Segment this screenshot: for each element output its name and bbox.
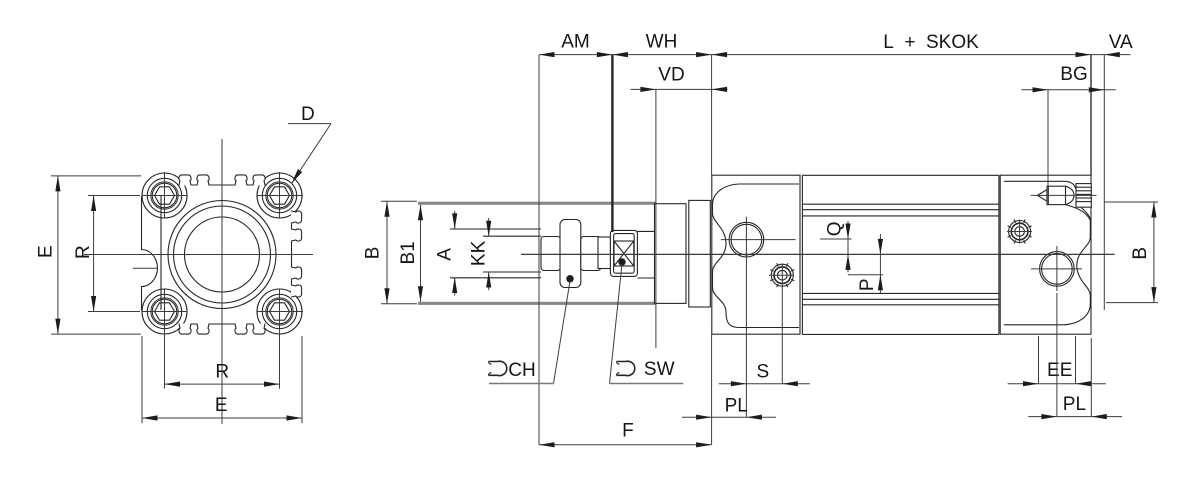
bolt hole B1 top-left inner circle bbox=[152, 183, 177, 208]
rod hex nut (CH) bbox=[560, 220, 581, 288]
knurl line 4 bbox=[1076, 197, 1091, 199]
bolt hex socket B4 bottom-right bbox=[270, 303, 290, 320]
bolt hole B1 top-left outer circle bbox=[147, 178, 181, 212]
rear tie-rod horizontal centerline bbox=[1007, 231, 1032, 233]
front cover inner bottom line bbox=[739, 327, 799, 329]
bolt hole B1 top-left chamfer circle bbox=[151, 182, 178, 209]
svg-text:VA: VA bbox=[1109, 32, 1133, 53]
svg-text:R: R bbox=[73, 245, 94, 259]
dimension E (left vertical) bbox=[51, 175, 141, 177]
cushion screw knurled knob bbox=[1076, 184, 1091, 208]
extension line rod end (AM/F) bbox=[538, 55, 540, 445]
dimension EE bbox=[1038, 336, 1040, 384]
svg-text:Q: Q bbox=[824, 222, 845, 237]
bolt hex socket B2 top-right bbox=[270, 187, 290, 204]
cap corner lug boss top-left bbox=[142, 173, 187, 218]
bolt hole B2 top-right inner circle bbox=[267, 183, 292, 208]
bolt hex socket B1 top-left bbox=[155, 187, 175, 204]
tube inner top line bbox=[802, 215, 999, 217]
dimension VD bbox=[631, 88, 728, 90]
front cover body bbox=[712, 175, 800, 334]
bolt row centerline top-right bbox=[257, 195, 303, 197]
dimension chain AM / WH / L + SKOK / VA bbox=[539, 54, 1131, 56]
front port horizontal centerline bbox=[721, 239, 796, 241]
cap bore middle circle bbox=[174, 206, 271, 303]
svg-text:CH: CH bbox=[508, 360, 535, 381]
knurl line 5 bbox=[1076, 201, 1091, 203]
svg-text:D: D bbox=[301, 104, 315, 125]
rear port outer circle bbox=[1040, 252, 1075, 287]
cap serration teeth bottom edge bbox=[179, 324, 191, 335]
front tie-rod horizontal centerline bbox=[769, 274, 794, 276]
cushion screw cone tip bbox=[1037, 190, 1047, 202]
rod guide collar bbox=[655, 204, 687, 304]
front tie-rod nut circle bbox=[771, 264, 793, 286]
cap bottom face line bbox=[184, 323, 260, 325]
cap horizontal centerline bbox=[84, 254, 313, 256]
cap serration teeth right edge bbox=[291, 211, 302, 223]
svg-text:E: E bbox=[36, 245, 57, 258]
dimension BG bbox=[1021, 89, 1115, 91]
front cover casting contour bbox=[713, 184, 740, 328]
rear tie-rod vertical centerline bbox=[1019, 220, 1021, 244]
rear cover body bbox=[1000, 175, 1091, 334]
main horizontal centerline bbox=[521, 253, 1115, 255]
bolt hole B2 top-right outer circle bbox=[262, 178, 296, 212]
dimension PL (rear) bbox=[1056, 293, 1058, 417]
knurl line 2 bbox=[1076, 190, 1091, 192]
svg-text:L + SKOK: L + SKOK bbox=[883, 32, 979, 53]
tube bottom edge bbox=[802, 333, 999, 335]
rear port inner circle bbox=[1042, 254, 1073, 285]
svg-text:B1: B1 bbox=[398, 241, 419, 264]
bolt row centerline bottom-left bbox=[142, 311, 187, 313]
bolt column centerline bottom-left bbox=[164, 289, 166, 334]
gray band bottom (profile tube bottom edge) bbox=[418, 302, 656, 305]
bolt column centerline bottom-right bbox=[279, 289, 281, 334]
extension line BG left bbox=[1047, 90, 1049, 186]
wrench flats diagonal 2 bbox=[614, 241, 634, 266]
rod face heavy extension line (AM/WH) bbox=[611, 55, 613, 232]
extension line VA/BG/B right bbox=[1103, 55, 1105, 310]
dimension P bbox=[848, 274, 883, 276]
leader dot CH bbox=[567, 276, 573, 282]
cap bore inner circle bbox=[185, 217, 260, 292]
wrench flats square bbox=[614, 241, 634, 266]
rear port vertical centerline bbox=[1056, 246, 1058, 291]
extension line rear cover face (L+SKOK/VA) bbox=[1090, 55, 1092, 176]
cap top face line bbox=[184, 184, 260, 186]
bolt hex socket B3 bottom-left bbox=[155, 303, 175, 320]
dimension R (left vertical) bbox=[88, 195, 140, 197]
svg-text:VD: VD bbox=[658, 65, 684, 86]
front mounting plate bbox=[689, 200, 711, 307]
svg-text:R: R bbox=[215, 361, 229, 382]
cap corner lug boss top-right bbox=[257, 173, 302, 218]
leader D to bolt hole bbox=[288, 123, 331, 125]
cap serration teeth top edge bbox=[179, 175, 191, 186]
bolt hole B4 bottom-right chamfer circle bbox=[266, 298, 293, 325]
bolt hole B3 bottom-left chamfer circle bbox=[151, 298, 178, 325]
front tie-rod vertical centerline bbox=[781, 264, 783, 288]
cushion screw centerline bbox=[1031, 194, 1097, 196]
tube left end bbox=[801, 175, 803, 334]
rod outer diameter line top bbox=[450, 228, 541, 230]
dimension KK bbox=[488, 218, 490, 236]
svg-text:WH: WH bbox=[646, 32, 678, 53]
svg-text:F: F bbox=[622, 421, 634, 442]
dimension A bbox=[454, 211, 456, 229]
tie rod top line 1 bbox=[802, 203, 999, 205]
cushion screw facet line bbox=[1047, 186, 1049, 204]
svg-text:P: P bbox=[857, 278, 878, 291]
wrench flats diagonal 1 bbox=[614, 241, 634, 266]
bolt column centerline top-right bbox=[279, 172, 281, 218]
extension line collar face (VD) bbox=[655, 89, 657, 348]
knurl line 3 bbox=[1076, 193, 1091, 195]
svg-text:PL: PL bbox=[725, 395, 748, 416]
rod shoulder right of nut bbox=[581, 237, 601, 271]
dimension B1 bbox=[420, 205, 422, 302]
bolt hole B2 top-right chamfer circle bbox=[266, 182, 293, 209]
front port inner circle bbox=[731, 224, 762, 255]
bolt hole B3 bottom-left outer circle bbox=[147, 294, 181, 328]
cap bore outer circle bbox=[168, 201, 276, 309]
svg-text:B: B bbox=[363, 247, 384, 260]
front cover inner top line bbox=[739, 183, 799, 185]
wrench flats inner box bbox=[614, 234, 635, 274]
tie rod top line 2 bbox=[802, 209, 999, 211]
dimension S bbox=[781, 288, 783, 384]
knurl line 1 bbox=[1076, 186, 1091, 188]
cushion screw hex body bbox=[1047, 186, 1066, 204]
svg-text:KK: KK bbox=[469, 240, 490, 266]
bolt row centerline top-left bbox=[142, 195, 187, 197]
rear tie-rod nut circle bbox=[1009, 221, 1031, 243]
svg-text:B: B bbox=[1130, 247, 1151, 260]
front tie-rod serrations bbox=[791, 279, 794, 281]
front port outer circle bbox=[729, 222, 764, 257]
gray band top (profile tube top edge) bbox=[418, 202, 656, 205]
cap left inner face line bbox=[160, 196, 162, 310]
svg-text:BG: BG bbox=[1060, 64, 1087, 85]
rod segment top line bbox=[637, 230, 654, 232]
rear cover inner lines and casting contour (rotated copy of front) bbox=[1004, 181, 1091, 325]
rod segment bottom line bbox=[637, 277, 654, 279]
dimension B (right side) bbox=[1104, 201, 1158, 203]
rear tie-rod serrations bbox=[1028, 236, 1031, 238]
rear port horizontal centerline bbox=[1031, 268, 1082, 270]
svg-text:E: E bbox=[215, 395, 228, 416]
dimension R (bottom horizontal) bbox=[164, 330, 166, 389]
dimension Q bbox=[820, 238, 852, 240]
front port vertical centerline bbox=[745, 217, 747, 265]
dimension B (left side) bbox=[381, 200, 417, 202]
rod thread root line top bbox=[483, 235, 541, 237]
cap corner lug boss bottom-right bbox=[257, 289, 302, 334]
cap right face line bbox=[291, 214, 293, 295]
bolt hole B3 bottom-left inner circle bbox=[152, 299, 177, 324]
svg-text:A: A bbox=[435, 248, 456, 261]
tube top edge bbox=[802, 174, 999, 176]
svg-text:SW: SW bbox=[644, 359, 675, 380]
cap notch center tick bbox=[133, 267, 157, 269]
bolt hole B4 bottom-right outer circle bbox=[262, 294, 296, 328]
cap left outer edge with notch bbox=[142, 197, 158, 311]
dimension E (bottom horizontal) bbox=[141, 336, 143, 423]
dimension PL (front) bbox=[711, 334, 713, 445]
rod shoulder left of nut bbox=[541, 237, 561, 271]
bolt row centerline bottom-right bbox=[257, 311, 303, 313]
cap corner lug boss bottom-left bbox=[142, 289, 187, 334]
leader dot SW bbox=[619, 259, 625, 265]
rod outer diameter line bottom bbox=[450, 277, 541, 279]
tube inner bottom line bbox=[802, 292, 999, 294]
rod thread root line bottom bbox=[483, 271, 541, 273]
wrench flats outer box (SW) bbox=[610, 230, 637, 276]
boss arc under cushion screw bbox=[1066, 205, 1091, 220]
leader SW to wrench flats bbox=[610, 264, 623, 384]
tube right end bbox=[998, 175, 1000, 334]
svg-text:PL: PL bbox=[1063, 394, 1086, 415]
svg-text:AM: AM bbox=[561, 32, 590, 53]
cap vertical centerline bbox=[221, 139, 223, 424]
rod neck section bbox=[598, 237, 611, 269]
bolt column centerline top-left bbox=[164, 172, 166, 218]
extension line front cover face (WH/L+SKOK) bbox=[711, 55, 713, 176]
svg-text:EE: EE bbox=[1047, 360, 1072, 381]
tie rod bottom line 2 bbox=[802, 304, 999, 306]
cushion screw dome bbox=[1066, 186, 1075, 204]
svg-text:S: S bbox=[756, 362, 769, 383]
tie rod bottom line 1 bbox=[802, 298, 999, 300]
dimension F bbox=[539, 444, 712, 446]
bolt hole B4 bottom-right inner circle bbox=[267, 299, 292, 324]
